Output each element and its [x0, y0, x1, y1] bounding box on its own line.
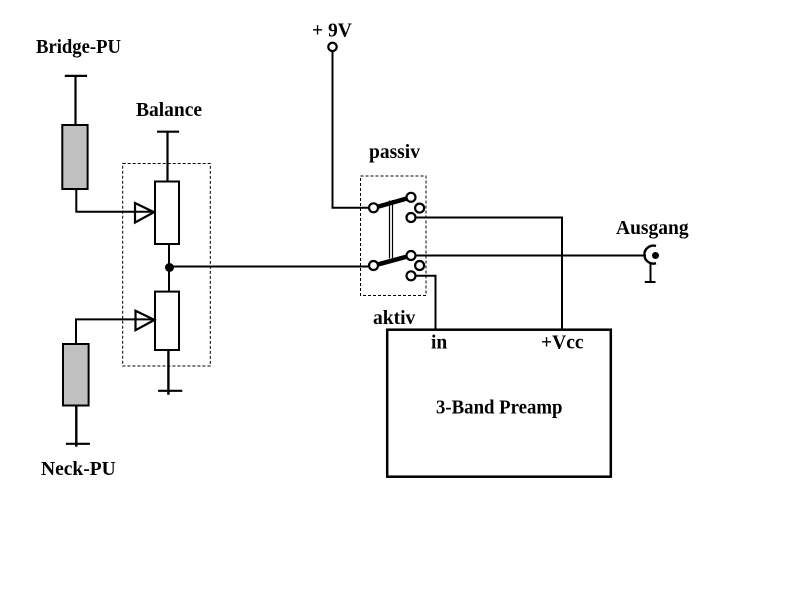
switch S1 pole2 lever bar: [374, 256, 411, 266]
wire switch to output jack: [416, 255, 647, 257]
potentiometer R1 top terminal bar: [157, 131, 179, 133]
svg-text:Ausgang: Ausgang: [616, 218, 689, 239]
pickup P2 (Neck) body: [63, 344, 89, 406]
switch S1 mechanical link lines: [389, 201, 391, 259]
switch S1 pole2 common contact: [369, 261, 378, 270]
switch S1 pole1 throw A contact: [407, 193, 416, 202]
switch S1 pole1 common contact: [369, 203, 378, 212]
battery terminal circle: [328, 43, 336, 51]
switch S1 pole1 middle contact: [415, 204, 424, 213]
junction node dot: [165, 263, 174, 272]
wire switch to preamp in: [416, 276, 436, 330]
svg-text:+ 9V: + 9V: [312, 21, 352, 42]
pickup P1 (Bridge) top terminal bar: [65, 75, 87, 77]
wire: [75, 406, 77, 447]
potentiometer R2 bottom terminal bar: [158, 390, 182, 392]
switch S1 pole2 throw A contact: [407, 251, 416, 260]
pickup P2 bottom terminal bar: [66, 443, 90, 445]
svg-text:+Vcc: +Vcc: [541, 333, 584, 354]
wiper arrow pot R2: [136, 311, 155, 331]
switch S1 pole1 lever bar: [374, 197, 411, 208]
switch S1 pole1 throw B contact: [407, 213, 416, 222]
svg-text:Bridge-PU: Bridge-PU: [36, 37, 121, 58]
dashed box balance network: [123, 164, 211, 367]
switch S1 pole2 throw B contact: [407, 271, 416, 280]
wire: [166, 132, 168, 182]
switch S1 pole2 middle contact: [415, 261, 424, 270]
potentiometer R2 body: [155, 292, 179, 350]
output jack J1 arc: [644, 246, 656, 264]
svg-text:passiv: passiv: [369, 142, 420, 163]
wire: [167, 350, 169, 395]
wire: [76, 189, 155, 212]
jack sleeve terminal bar: [645, 281, 656, 283]
wire 9V to switch: [333, 51, 374, 208]
wire jack sleeve: [650, 264, 652, 283]
svg-text:Balance: Balance: [136, 100, 202, 121]
wire junction to switch: [170, 266, 374, 268]
svg-text:Neck-PU: Neck-PU: [41, 459, 116, 480]
dashed box switch: [361, 176, 427, 296]
svg-text:aktiv: aktiv: [373, 308, 416, 329]
wiper arrow pot R1: [135, 203, 154, 223]
wire neck pickup to arrow: [76, 319, 155, 345]
pickup P1 (Bridge) body: [62, 125, 87, 189]
wire: [168, 244, 170, 292]
output jack tip dot: [652, 252, 659, 259]
potentiometer R1 body: [155, 182, 179, 245]
wire switch to +Vcc: [416, 218, 563, 331]
preamp box U1: [387, 330, 611, 477]
svg-text:in: in: [431, 332, 447, 353]
wire: [74, 76, 76, 126]
svg-text:3-Band Preamp: 3-Band Preamp: [436, 397, 563, 418]
